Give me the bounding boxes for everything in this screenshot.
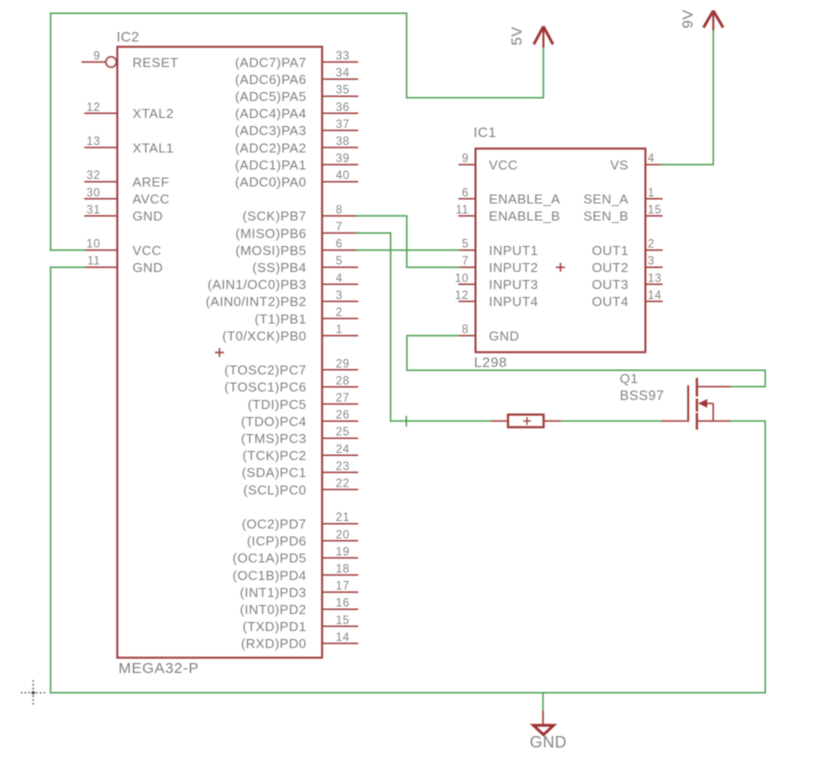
svg-text:(T1)PB1: (T1)PB1 <box>255 311 307 326</box>
svg-text:1: 1 <box>648 187 655 199</box>
svg-text:8: 8 <box>336 204 343 216</box>
svg-text:16: 16 <box>336 598 350 610</box>
svg-text:IC1: IC1 <box>474 124 497 140</box>
svg-text:(SS)PB4: (SS)PB4 <box>252 260 306 275</box>
svg-text:21: 21 <box>336 512 350 524</box>
svg-text:ENABLE_B: ENABLE_B <box>489 209 560 224</box>
svg-text:GND: GND <box>489 328 520 343</box>
svg-text:OUT2: OUT2 <box>592 260 629 275</box>
svg-text:(MISO)PB6: (MISO)PB6 <box>235 226 306 241</box>
svg-text:3: 3 <box>336 290 343 302</box>
svg-text:(TMS)PC3: (TMS)PC3 <box>241 431 306 446</box>
svg-text:(SDA)PC1: (SDA)PC1 <box>242 465 307 480</box>
svg-text:VS: VS <box>610 157 628 172</box>
svg-text:(ADC3)PA3: (ADC3)PA3 <box>235 123 307 138</box>
svg-text:6: 6 <box>462 187 469 199</box>
svg-text:(T0/XCK)PB0: (T0/XCK)PB0 <box>222 328 306 343</box>
svg-text:MEGA32-P: MEGA32-P <box>119 660 200 677</box>
svg-text:BSS97: BSS97 <box>620 388 664 403</box>
svg-text:23: 23 <box>336 461 350 473</box>
svg-text:32: 32 <box>87 170 101 182</box>
svg-text:9: 9 <box>94 51 101 63</box>
svg-text:29: 29 <box>336 358 350 370</box>
svg-text:INPUT2: INPUT2 <box>489 260 538 275</box>
svg-text:34: 34 <box>336 68 350 80</box>
svg-text:GND: GND <box>133 260 164 275</box>
svg-text:14: 14 <box>336 632 350 644</box>
svg-text:11: 11 <box>87 256 100 268</box>
svg-text:(AIN0/INT2)PB2: (AIN0/INT2)PB2 <box>206 294 307 309</box>
svg-text:5: 5 <box>462 239 469 251</box>
svg-text:(SCL)PC0: (SCL)PC0 <box>243 482 306 497</box>
svg-text:14: 14 <box>648 290 662 302</box>
svg-text:36: 36 <box>336 102 350 114</box>
svg-text:OUT3: OUT3 <box>592 277 629 292</box>
svg-text:XTAL2: XTAL2 <box>133 106 174 121</box>
svg-text:24: 24 <box>336 444 350 456</box>
svg-text:28: 28 <box>336 375 350 387</box>
svg-text:4: 4 <box>336 273 343 285</box>
svg-text:INPUT4: INPUT4 <box>489 294 538 309</box>
svg-text:(ADC0)PA0: (ADC0)PA0 <box>235 175 307 190</box>
svg-text:38: 38 <box>336 136 350 148</box>
svg-text:VCC: VCC <box>133 243 162 258</box>
svg-text:(RXD)PD0: (RXD)PD0 <box>241 636 306 651</box>
svg-text:INPUT1: INPUT1 <box>489 243 538 258</box>
svg-text:4: 4 <box>648 153 655 165</box>
svg-text:8: 8 <box>462 324 469 336</box>
svg-text:7: 7 <box>336 222 343 234</box>
svg-text:(INT0)PD2: (INT0)PD2 <box>240 602 307 617</box>
svg-text:(TDO)PC4: (TDO)PC4 <box>241 414 306 429</box>
svg-text:5: 5 <box>336 256 343 268</box>
svg-text:SEN_B: SEN_B <box>583 209 628 224</box>
svg-text:(TCK)PC2: (TCK)PC2 <box>242 448 306 463</box>
svg-text:6: 6 <box>336 239 343 251</box>
svg-text:5V: 5V <box>509 26 526 45</box>
svg-text:XTAL1: XTAL1 <box>133 140 174 155</box>
svg-text:RESET: RESET <box>133 55 179 70</box>
svg-text:7: 7 <box>462 256 469 268</box>
svg-text:L298: L298 <box>474 354 507 370</box>
svg-text:13: 13 <box>87 136 101 148</box>
svg-text:(TDI)PC5: (TDI)PC5 <box>248 397 307 412</box>
svg-text:13: 13 <box>648 273 662 285</box>
svg-text:(SCK)PB7: (SCK)PB7 <box>242 209 306 224</box>
svg-text:37: 37 <box>336 119 350 131</box>
svg-text:15: 15 <box>648 204 662 216</box>
svg-text:25: 25 <box>336 427 350 439</box>
svg-text:(OC1A)PD5: (OC1A)PD5 <box>233 551 307 566</box>
svg-text:GND: GND <box>530 734 567 752</box>
svg-text:10: 10 <box>455 273 469 285</box>
svg-text:31: 31 <box>87 204 101 216</box>
svg-text:SEN_A: SEN_A <box>583 192 628 207</box>
svg-text:11: 11 <box>456 204 469 216</box>
svg-text:(INT1)PD3: (INT1)PD3 <box>240 585 307 600</box>
svg-text:AREF: AREF <box>133 175 170 190</box>
svg-text:(AIN1/OC0)PB3: (AIN1/OC0)PB3 <box>207 277 306 292</box>
svg-text:20: 20 <box>336 529 350 541</box>
svg-text:1: 1 <box>336 324 343 336</box>
svg-text:33: 33 <box>336 51 350 63</box>
svg-text:(ADC7)PA7: (ADC7)PA7 <box>235 55 307 70</box>
svg-text:(TOSC1)PC6: (TOSC1)PC6 <box>224 380 306 395</box>
svg-text:3: 3 <box>648 256 655 268</box>
svg-text:15: 15 <box>336 615 350 627</box>
svg-text:GND: GND <box>133 209 164 224</box>
svg-text:30: 30 <box>87 187 101 199</box>
svg-text:(OC1B)PD4: (OC1B)PD4 <box>233 568 307 583</box>
svg-text:AVCC: AVCC <box>133 192 170 207</box>
svg-text:27: 27 <box>336 393 350 405</box>
svg-text:26: 26 <box>336 410 350 422</box>
svg-text:OUT1: OUT1 <box>592 243 629 258</box>
svg-text:(ADC4)PA4: (ADC4)PA4 <box>235 106 307 121</box>
svg-text:(ADC5)PA5: (ADC5)PA5 <box>235 89 307 104</box>
svg-text:2: 2 <box>648 239 655 251</box>
svg-text:(TXD)PD1: (TXD)PD1 <box>242 619 306 634</box>
svg-text:(ADC1)PA1: (ADC1)PA1 <box>235 157 307 172</box>
svg-text:19: 19 <box>336 546 350 558</box>
svg-text:12: 12 <box>87 102 101 114</box>
svg-text:(ICP)PD6: (ICP)PD6 <box>247 534 307 549</box>
svg-text:17: 17 <box>336 581 350 593</box>
svg-text:(ADC2)PA2: (ADC2)PA2 <box>235 140 307 155</box>
svg-text:IC2: IC2 <box>117 29 140 45</box>
svg-text:35: 35 <box>336 85 350 97</box>
svg-text:Q1: Q1 <box>620 371 638 386</box>
svg-text:(ADC6)PA6: (ADC6)PA6 <box>235 72 307 87</box>
svg-text:(MOSI)PB5: (MOSI)PB5 <box>235 243 306 258</box>
svg-text:9V: 9V <box>680 9 697 28</box>
svg-text:9: 9 <box>462 153 469 165</box>
svg-text:40: 40 <box>336 170 350 182</box>
svg-text:12: 12 <box>455 290 469 302</box>
svg-text:2: 2 <box>336 307 343 319</box>
svg-text:OUT4: OUT4 <box>592 294 629 309</box>
svg-text:10: 10 <box>87 239 101 251</box>
svg-text:22: 22 <box>336 478 350 490</box>
svg-text:18: 18 <box>336 564 350 576</box>
svg-text:(TOSC2)PC7: (TOSC2)PC7 <box>224 363 306 378</box>
svg-text:INPUT3: INPUT3 <box>489 277 538 292</box>
svg-text:ENABLE_A: ENABLE_A <box>489 192 560 207</box>
svg-text:(OC2)PD7: (OC2)PD7 <box>242 517 307 532</box>
svg-text:VCC: VCC <box>489 157 518 172</box>
svg-text:39: 39 <box>336 153 350 165</box>
